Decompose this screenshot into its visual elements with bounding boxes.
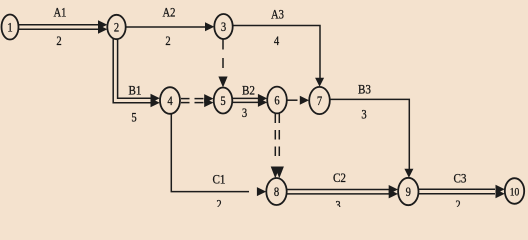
wire A2 arrow 2-3: [126, 22, 215, 31]
svg-text:5: 5: [131, 110, 136, 125]
node 7: [309, 87, 330, 114]
wire B2 double line 5-6: [232, 94, 267, 107]
node 9: [398, 178, 418, 205]
svg-text:1: 1: [7, 20, 12, 35]
node 2: [107, 15, 125, 39]
svg-text:2: 2: [455, 197, 460, 207]
svg-text:2: 2: [114, 20, 119, 35]
wire C2 double line 8-9: [287, 185, 398, 198]
wire dummy dashed 3-5: [218, 40, 227, 88]
wire A3 arrow 3-7: [233, 26, 324, 87]
svg-text:A3: A3: [271, 7, 284, 22]
svg-text:8: 8: [274, 184, 279, 199]
svg-text:3: 3: [361, 107, 366, 122]
svg-text:3: 3: [335, 198, 340, 208]
svg-text:10: 10: [510, 185, 520, 199]
svg-text:C1: C1: [213, 172, 226, 187]
wire dummy dashed 6-7: [287, 96, 309, 105]
node 4: [160, 87, 180, 114]
node 6: [267, 87, 287, 114]
node 1: [2, 15, 19, 40]
svg-text:4: 4: [274, 33, 280, 48]
wire B1 double line 2-4: [113, 39, 160, 108]
svg-text:B3: B3: [358, 82, 371, 97]
svg-text:2: 2: [165, 33, 170, 48]
wire dummy dashed double 6-8: [271, 114, 284, 179]
svg-text:4: 4: [167, 93, 173, 108]
svg-text:A2: A2: [163, 5, 176, 20]
svg-text:3: 3: [221, 19, 226, 34]
wire A1 double line 1-2: [19, 20, 108, 33]
node 3: [214, 14, 232, 39]
wire C3 double line 9-10: [419, 185, 505, 198]
node 5: [214, 88, 233, 114]
svg-text:2: 2: [216, 197, 221, 208]
svg-text:C2: C2: [333, 170, 346, 185]
svg-text:5: 5: [220, 93, 225, 108]
svg-text:C3: C3: [454, 171, 467, 186]
node 10: [505, 178, 524, 204]
svg-text:B1: B1: [129, 83, 142, 98]
svg-text:B2: B2: [242, 83, 255, 98]
svg-text:A1: A1: [54, 5, 67, 20]
wire B3 arrow 7-9: [330, 99, 414, 177]
svg-text:2: 2: [56, 33, 61, 48]
svg-text:9: 9: [406, 184, 411, 199]
svg-text:6: 6: [274, 93, 280, 108]
wire C1 arrow 4-8: [171, 114, 266, 196]
node 8: [266, 178, 286, 205]
svg-text:3: 3: [242, 105, 247, 120]
svg-text:7: 7: [317, 93, 323, 108]
wire dummy dashed double 4-5: [181, 94, 214, 107]
